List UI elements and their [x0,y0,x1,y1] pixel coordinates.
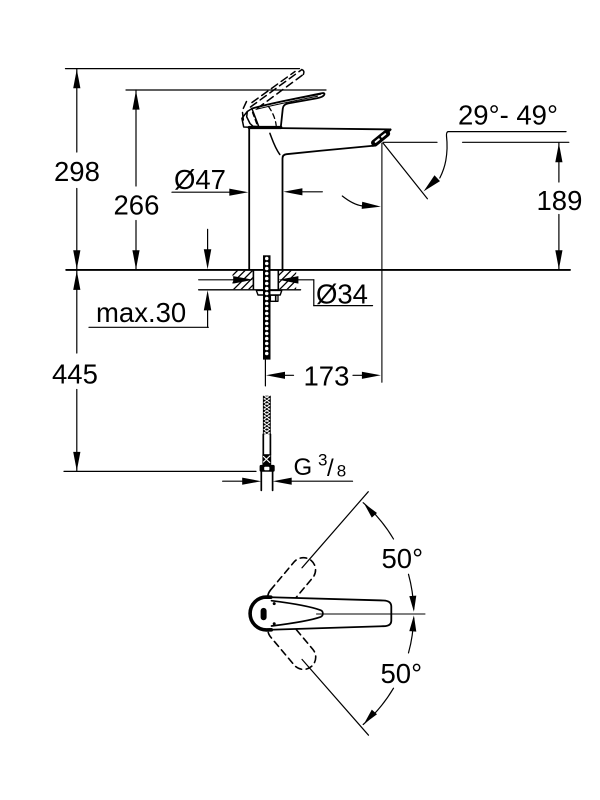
svg-text:189: 189 [537,185,583,216]
svg-text:G: G [294,454,313,481]
svg-text:29°- 49°: 29°- 49° [458,99,558,130]
svg-text:50°: 50° [381,658,423,689]
svg-text:298: 298 [54,156,100,187]
svg-text:50°: 50° [382,543,424,574]
svg-text:/: / [327,455,334,482]
svg-text:max.30: max.30 [96,297,186,328]
svg-text:266: 266 [114,190,160,221]
svg-text:Ø47: Ø47 [174,164,226,195]
svg-text:8: 8 [337,461,346,480]
svg-text:445: 445 [52,358,98,389]
svg-text:Ø34: Ø34 [316,279,368,310]
svg-text:173: 173 [304,360,350,391]
